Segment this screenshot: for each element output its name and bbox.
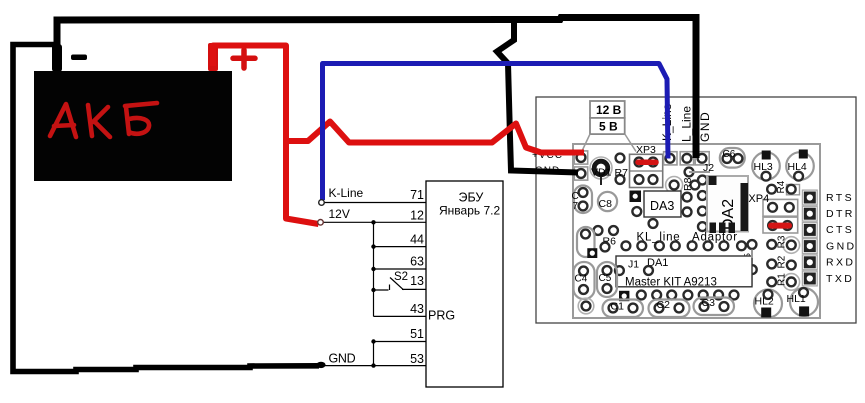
jumper shunt on XP3 (red) bbox=[638, 160, 656, 166]
DA1 top pin row bbox=[622, 241, 631, 250]
IC DA2 bbox=[707, 176, 748, 232]
svg-text:5 В: 5 В bbox=[599, 120, 618, 134]
node junction dots on 12V bus bbox=[371, 220, 375, 368]
pad GND top with box bbox=[695, 152, 709, 165]
svg-text:C4: C4 bbox=[575, 274, 588, 285]
jumper header XP4 upper row bbox=[763, 199, 798, 216]
switch S2 blade bbox=[390, 278, 404, 290]
wire: black branch with strain-relief zigzag from top rail to PCB left GND pad bbox=[497, 17, 578, 173]
switch S2 stub bbox=[374, 285, 390, 291]
wire: 12V bus down to pin 43 bbox=[373, 222, 375, 316]
svg-text:RTS: RTS bbox=[826, 192, 854, 204]
pads below DA3 bbox=[632, 207, 641, 216]
svg-text:43: 43 bbox=[410, 302, 424, 316]
svg-text:XP4: XP4 bbox=[748, 193, 769, 205]
resistor R8 pads bbox=[685, 168, 694, 177]
capacitor C6 bbox=[720, 148, 745, 168]
IC DA3 bbox=[644, 191, 681, 217]
svg-text:R2: R2 bbox=[777, 255, 788, 268]
wire: blue K-Line from ECU pin 71 up and across to PCB K_Line pad bbox=[323, 64, 669, 201]
svg-text:53: 53 bbox=[410, 352, 424, 366]
wire: red branch with zigzags to PCB +VCC pad bbox=[286, 122, 584, 153]
wire: pin 12 lead bbox=[323, 221, 426, 223]
svg-text:HL1: HL1 bbox=[787, 293, 806, 305]
svg-text:GND: GND bbox=[698, 111, 712, 142]
svg-text:Master KIT A9213: Master KIT A9213 bbox=[625, 277, 717, 289]
svg-text:C5: C5 bbox=[599, 273, 612, 284]
svg-text:DA3: DA3 bbox=[650, 199, 674, 213]
svg-text:R3: R3 bbox=[777, 235, 788, 248]
svg-text:HL3: HL3 bbox=[754, 161, 773, 173]
LED HL2 bbox=[754, 290, 782, 318]
resistor R2 bbox=[767, 260, 776, 269]
square pad left of DA3 bbox=[630, 191, 642, 203]
svg-text:R8: R8 bbox=[682, 177, 694, 191]
jumper header XP3 bbox=[630, 154, 663, 187]
wire: pin 51 lead bbox=[374, 341, 427, 343]
svg-text:C6: C6 bbox=[723, 149, 736, 160]
svg-text:L_Line: L_Line bbox=[680, 106, 694, 142]
svg-text:HL4: HL4 bbox=[788, 161, 807, 173]
pad with stub right of DA1 row bbox=[748, 240, 757, 249]
IC DA1 bbox=[616, 256, 752, 287]
jumper header XP4 lower row with red shunt bbox=[763, 217, 798, 233]
svg-text:7: 7 bbox=[573, 201, 579, 212]
svg-text:12V: 12V bbox=[329, 207, 350, 221]
node: 12V terminal circle bbox=[318, 220, 324, 226]
capacitor C1 bbox=[603, 300, 644, 318]
pad K_Line with box bbox=[664, 152, 677, 165]
svg-text:GND: GND bbox=[826, 240, 857, 252]
capacitor C7 bbox=[574, 186, 592, 214]
battery negative terminal stub bbox=[52, 44, 62, 72]
svg-text:R7: R7 bbox=[615, 167, 629, 179]
wire: GND / pin 53 lead bbox=[325, 365, 426, 367]
svg-text:K-Line: K-Line bbox=[329, 186, 364, 200]
svg-text:63: 63 bbox=[410, 254, 424, 268]
node: K-Line terminal circle bbox=[319, 200, 325, 206]
svg-text:12 В: 12 В bbox=[596, 103, 622, 117]
svg-text:44: 44 bbox=[410, 232, 424, 246]
svg-text:RXD: RXD bbox=[826, 257, 855, 269]
svg-text:GND: GND bbox=[329, 352, 356, 366]
capacitor C8 bbox=[598, 192, 617, 211]
svg-text:Adaptor: Adaptor bbox=[692, 232, 738, 244]
PCB silkscreen frame bbox=[573, 144, 820, 318]
capacitor C4 bbox=[574, 262, 595, 299]
resistor R6 bbox=[594, 226, 603, 235]
svg-text:S2: S2 bbox=[394, 271, 408, 283]
resistor R3 bbox=[767, 240, 776, 249]
wire: pin 44 lead bbox=[374, 246, 427, 248]
svg-text:13: 13 bbox=[410, 274, 424, 288]
svg-text:12: 12 bbox=[410, 209, 424, 223]
svg-text:C8: C8 bbox=[599, 198, 613, 210]
label box 12 B bbox=[590, 101, 625, 118]
svg-text:Январь 7.2: Январь 7.2 bbox=[439, 204, 500, 218]
serial header pads RTS..TXD bbox=[802, 190, 817, 205]
wire: pin 63 lead bbox=[374, 268, 427, 270]
svg-text:KL_line: KL_line bbox=[637, 232, 681, 244]
battery plus sign bbox=[233, 50, 255, 68]
resistor R4 bbox=[767, 185, 776, 194]
ECU U1 "ЭБУ Январь 7.2" body bbox=[426, 181, 503, 387]
svg-text:J1: J1 bbox=[628, 259, 639, 271]
IC DA2 left pin pads bbox=[698, 176, 707, 185]
wire: GND bus pin 51 to 53 bbox=[373, 342, 375, 366]
LED HL3 bbox=[752, 152, 780, 180]
capacitor C2 bbox=[649, 300, 690, 318]
svg-text:71: 71 bbox=[410, 188, 424, 202]
battery minus sign bbox=[71, 55, 87, 61]
svg-text:C1: C1 bbox=[611, 301, 625, 313]
svg-text:C2: C2 bbox=[657, 299, 671, 311]
svg-text:CTS: CTS bbox=[826, 224, 854, 236]
leader line to +VCC bbox=[582, 134, 590, 151]
battery AKB body bbox=[34, 71, 232, 181]
wire: pin 43 lead bbox=[374, 315, 427, 317]
svg-text:DTR: DTR bbox=[826, 208, 855, 220]
resistor R5 bbox=[741, 257, 752, 285]
resistor R1 bbox=[767, 278, 776, 287]
capacitor C3 bbox=[694, 298, 735, 316]
pad +VCC with box bbox=[574, 151, 587, 164]
leader line to XP3 bbox=[625, 134, 636, 152]
diode VD1 bbox=[590, 157, 612, 179]
svg-text:HL2: HL2 bbox=[755, 295, 774, 307]
capacitor (small oval) left column bbox=[577, 227, 595, 257]
mount pad bottom left bbox=[578, 298, 594, 314]
label box 5 B bbox=[590, 118, 625, 134]
trace from R8 to DA2 bbox=[689, 171, 710, 173]
LED HL4 bbox=[786, 152, 814, 180]
svg-text:VD1: VD1 bbox=[591, 167, 612, 179]
pad L_Line with box bbox=[680, 152, 693, 165]
battery positive terminal stub bbox=[208, 43, 218, 71]
svg-text:XP3: XP3 bbox=[636, 144, 656, 156]
svg-text:51: 51 bbox=[410, 327, 424, 341]
wire: pin 71 lead bbox=[324, 202, 426, 204]
svg-text:PRG: PRG bbox=[428, 309, 455, 323]
wire: black top rail from battery minus to PCB top GND pad bbox=[57, 18, 696, 159]
DA1 bottom pin row bbox=[619, 291, 629, 301]
svg-text:TXD: TXD bbox=[826, 273, 854, 285]
wire: red from battery plus down to ECU 12V pin bbox=[213, 46, 319, 225]
PCB board outline bbox=[536, 97, 856, 323]
svg-text:R4: R4 bbox=[776, 180, 787, 193]
node: GND blob at end of ground wire bbox=[316, 362, 325, 368]
resistor R7 bbox=[616, 154, 625, 163]
label АКБ (hand drawn red) bbox=[50, 103, 157, 137]
LED HL1 bbox=[790, 288, 818, 316]
svg-text:ЭБУ: ЭБУ bbox=[459, 191, 484, 205]
wire: black ground loop from battery minus down left side and along bottom to ECU GND bbox=[13, 45, 319, 372]
wire: pin 13 lead bbox=[402, 288, 426, 290]
svg-text:R1: R1 bbox=[777, 273, 788, 286]
capacitor C5 bbox=[597, 262, 617, 297]
svg-text:C3: C3 bbox=[702, 297, 716, 309]
pad GND left with box bbox=[574, 167, 587, 180]
